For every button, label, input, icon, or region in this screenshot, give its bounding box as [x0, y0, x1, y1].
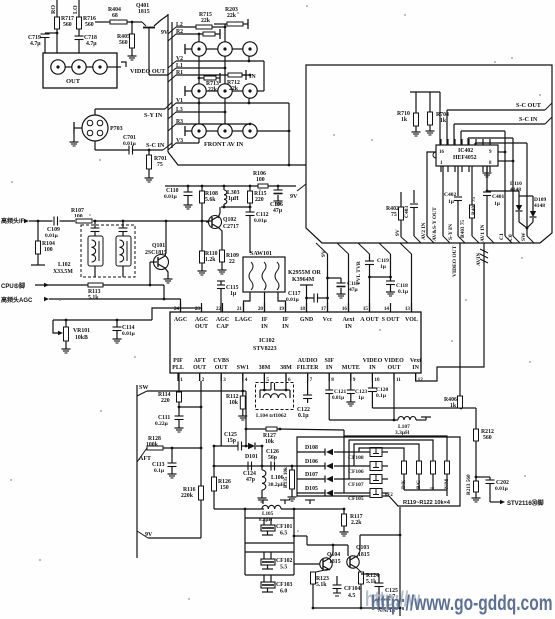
- resistor R715: [196, 12, 225, 42]
- resistor R212: [474, 429, 494, 478]
- svg-text:1815: 1815: [138, 9, 150, 15]
- svg-text:6.0: 6.0: [280, 589, 287, 595]
- svg-text:L104 trf1062: L104 trf1062: [256, 413, 287, 419]
- SAW filter SAW101: [243, 251, 285, 292]
- svg-text:9: 9: [353, 377, 356, 383]
- capacitor C111: [155, 415, 184, 427]
- capacitor C121: [325, 373, 346, 420]
- ground VR101: [62, 346, 71, 353]
- resistor R717: [55, 16, 74, 53]
- svg-text:1μ: 1μ: [494, 201, 501, 207]
- svg-text:IN: IN: [282, 324, 289, 330]
- svg-text:0.01μ: 0.01μ: [123, 141, 137, 147]
- svg-text:47μ: 47μ: [273, 208, 283, 214]
- svg-text:75: 75: [157, 162, 163, 168]
- capacitor C117: [286, 291, 329, 303]
- svg-text:C401: C401: [492, 194, 504, 200]
- svg-text:IN: IN: [369, 365, 376, 371]
- resistor R701: [147, 150, 167, 175]
- wire discriminator line: [214, 465, 297, 468]
- svg-text:CF101: CF101: [276, 524, 293, 530]
- svg-text:RO: RO: [51, 5, 57, 14]
- svg-text:5.1k: 5.1k: [88, 295, 99, 301]
- svg-text:Q101: Q101: [152, 243, 165, 249]
- svg-text:18: 18: [300, 306, 306, 312]
- ground Q101: [164, 276, 173, 283]
- watermark go-gddq: [371, 591, 553, 615]
- resistor R2 series: [198, 29, 220, 42]
- node R2: [168, 29, 203, 41]
- op-amp U IC402 HEF4052: [433, 145, 498, 166]
- wire VR rail: [53, 308, 202, 320]
- AV row3 jack right: [232, 124, 290, 138]
- svg-text:Aext: Aext: [343, 317, 355, 323]
- capacitor C114: [113, 319, 136, 337]
- svg-text:22: 22: [216, 306, 222, 312]
- ceramic filter CF106: [348, 462, 388, 476]
- svg-text:9: 9: [489, 150, 492, 155]
- svg-text:R213 560: R213 560: [466, 474, 472, 495]
- wire R710 R704 feed: [410, 92, 440, 145]
- capacitor C403: [404, 190, 421, 243]
- svg-text:D108: D108: [305, 445, 318, 451]
- wire bus vertical bundle: [168, 14, 172, 152]
- wire Q101 emitter: [165, 268, 168, 276]
- svg-text:C2717: C2717: [223, 224, 239, 230]
- ground R710: [412, 129, 421, 136]
- svg-text:IC102: IC102: [259, 338, 275, 344]
- capacitor C110: [164, 185, 193, 202]
- wire pin3 column: [220, 373, 222, 446]
- svg-text:23: 23: [195, 306, 201, 312]
- svg-text:560: 560: [85, 22, 94, 28]
- wire CPU to AGC join: [163, 285, 165, 299]
- capacitor C402: [444, 166, 465, 243]
- wire detector output column: [399, 507, 402, 609]
- ground R704: [426, 128, 435, 135]
- svg-text:IN: IN: [412, 365, 419, 371]
- resistor R123: [311, 569, 330, 609]
- resistor R213: [466, 474, 479, 495]
- audio OUT jack panel: [43, 53, 126, 88]
- svg-text:S-C IN: S-C IN: [146, 142, 165, 149]
- svg-text:OUT: OUT: [387, 365, 400, 371]
- filter cell 1: [88, 220, 103, 277]
- ground C113: [168, 471, 177, 478]
- svg-text:22: 22: [229, 259, 235, 265]
- node V1: [168, 98, 289, 165]
- ceramic filter CF103: [261, 575, 293, 595]
- wire Q cluster feed: [294, 536, 348, 546]
- capacitor C118: [370, 243, 409, 295]
- svg-text:8: 8: [489, 161, 492, 166]
- svg-text:4.5: 4.5: [348, 593, 355, 599]
- filter cell 2: [116, 220, 131, 277]
- wire SAW pin20: [264, 292, 266, 312]
- capacitor C115: [217, 281, 239, 312]
- svg-text:1μ: 1μ: [230, 291, 237, 297]
- svg-text:CF105: CF105: [348, 496, 364, 502]
- svg-text:SAW101: SAW101: [250, 251, 272, 257]
- wire SW column: [519, 222, 534, 243]
- svg-text:0.1μ: 0.1μ: [154, 468, 165, 474]
- capacitor C401: [480, 166, 504, 243]
- svg-text:0.01μ: 0.01μ: [164, 194, 178, 200]
- node L3: [168, 107, 226, 119]
- wire to STV2116: [490, 499, 544, 507]
- svg-text:38M: 38M: [259, 365, 271, 371]
- capacitor C125 audio: [361, 574, 398, 614]
- svg-text:7: 7: [310, 377, 313, 383]
- svg-text:AV&S-Y OUT: AV&S-Y OUT: [432, 207, 438, 241]
- wire CF box frame: [244, 508, 296, 575]
- svg-text:L106: L106: [271, 475, 284, 481]
- svg-text:A OUT: A OUT: [360, 317, 379, 323]
- wire bottom rail: [214, 508, 345, 511]
- capacitor C113: [152, 448, 177, 474]
- svg-text:0.01μ: 0.01μ: [286, 297, 300, 303]
- wire pin6 into L104: [285, 373, 288, 391]
- svg-text:X33.5M: X33.5M: [53, 269, 73, 275]
- svg-text:22k: 22k: [227, 13, 237, 19]
- wire 9V rail: [165, 186, 298, 200]
- svg-text:S-Y IN: S-Y IN: [448, 224, 454, 240]
- svg-text:AGC: AGC: [216, 317, 229, 323]
- IC102 bottom pin labels: [172, 358, 421, 371]
- svg-text:16: 16: [342, 306, 348, 312]
- wire P703 left lead: [74, 122, 82, 139]
- capacitor C120: [368, 373, 389, 408]
- svg-text:D106: D106: [305, 459, 318, 465]
- wire Q401 emitter to video out: [148, 28, 150, 75]
- svg-text:220k: 220k: [181, 493, 194, 499]
- AV row2 jack left: [185, 84, 206, 98]
- svg-text:Q103: Q103: [356, 545, 369, 551]
- wire S-C IN right: [454, 116, 552, 145]
- svg-text:22k: 22k: [201, 18, 211, 24]
- svg-text:R119~R122 10k×4: R119~R122 10k×4: [403, 500, 451, 506]
- wire video R406 line: [372, 407, 476, 429]
- svg-text:1k: 1k: [450, 403, 457, 409]
- filter L102 dashed box: [53, 225, 135, 277]
- svg-text:560: 560: [119, 40, 128, 46]
- wire AVIN column: [476, 249, 488, 266]
- resistor R116: [181, 486, 204, 500]
- resistor R115: [248, 185, 267, 209]
- wire left bus: [136, 385, 138, 558]
- svg-text:1: 1: [440, 161, 443, 166]
- svg-text:0.01μ: 0.01μ: [254, 218, 268, 224]
- svg-text:15: 15: [363, 306, 369, 312]
- svg-text:C0: C0: [508, 234, 514, 241]
- svg-text:1.2k: 1.2k: [205, 257, 216, 263]
- svg-text:VOL: VOL: [405, 317, 418, 323]
- diode D106: [297, 459, 370, 470]
- watermark ghost: [365, 587, 421, 611]
- svg-text:1k: 1k: [440, 118, 447, 124]
- resistor R126: [212, 477, 231, 491]
- node R3: [168, 119, 251, 131]
- svg-text:SW: SW: [521, 232, 527, 241]
- svg-text:21: 21: [237, 306, 243, 312]
- ground R701: [145, 175, 154, 182]
- svg-text:10k: 10k: [265, 439, 275, 445]
- svg-text:CF108: CF108: [348, 455, 364, 461]
- svg-text:B/G: B/G: [416, 480, 422, 489]
- svg-text:3: 3: [223, 377, 226, 383]
- svg-text:1k: 1k: [401, 117, 408, 123]
- AV row3 jack mid: [206, 124, 232, 138]
- transistor Q103: [347, 545, 370, 568]
- ground C118: [386, 289, 395, 296]
- svg-text:AUDIO: AUDIO: [298, 358, 318, 364]
- resistor R104: [31, 220, 55, 265]
- ceramic filter CF102: [261, 552, 293, 571]
- svg-text:VIDEO: VIDEO: [384, 358, 404, 364]
- svg-text:0F2: 0F2: [385, 493, 393, 498]
- ground R109: [218, 267, 227, 274]
- svg-text:0.01μ: 0.01μ: [495, 486, 509, 492]
- svg-text:IN: IN: [326, 365, 333, 371]
- svg-text:2.2k: 2.2k: [351, 520, 362, 526]
- svg-text:47p: 47p: [246, 477, 255, 483]
- svg-text:LAGC: LAGC: [235, 317, 252, 323]
- svg-text:CF104: CF104: [344, 586, 361, 592]
- svg-text:100: 100: [256, 177, 265, 183]
- svg-text:Vext: Vext: [410, 358, 421, 364]
- svg-text:SIF: SIF: [325, 358, 335, 364]
- svg-text:1μ: 1μ: [448, 199, 455, 205]
- node L1: [168, 63, 226, 75]
- svg-text:0.01μ: 0.01μ: [332, 395, 344, 401]
- resistor R712: [225, 24, 256, 92]
- resistor R716: [77, 16, 96, 53]
- svg-text:3.3μH: 3.3μH: [395, 430, 410, 436]
- wire audio line: [329, 419, 398, 421]
- resistor R406: [444, 396, 463, 409]
- label AV&S-Y OUT: [432, 207, 438, 241]
- svg-text:HEF4052: HEF4052: [453, 155, 477, 161]
- svg-text:11: 11: [396, 377, 401, 383]
- wire RO line: [51, 0, 57, 17]
- svg-text:N/M: N/M: [444, 479, 450, 489]
- svg-text:0.01μ: 0.01μ: [122, 331, 136, 337]
- svg-text:4.7μ: 4.7μ: [30, 41, 41, 47]
- svg-text:5.6k: 5.6k: [205, 197, 216, 203]
- svg-text:OUT: OUT: [215, 365, 228, 371]
- svg-text:PIF: PIF: [173, 358, 183, 364]
- transistor Q401: [136, 3, 169, 36]
- svg-text:2: 2: [202, 377, 205, 383]
- svg-text:IN: IN: [261, 324, 268, 330]
- resistor R114: [158, 373, 202, 416]
- svg-text:IN: IN: [249, 74, 256, 80]
- capacitor C701: [123, 135, 172, 155]
- svg-text:LO: LO: [73, 5, 79, 14]
- wire fan to pin13: [400, 243, 412, 312]
- svg-text:150: 150: [220, 485, 229, 491]
- wire IC402 pin stubs: [441, 139, 490, 172]
- capacitor C106: [270, 185, 283, 214]
- ceramic filter CF105: [348, 489, 388, 503]
- svg-text:14: 14: [384, 306, 390, 312]
- IC102 top pin stubs and numbers: [174, 303, 412, 312]
- wire AGC line: [1, 296, 181, 312]
- svg-text:6.5: 6.5: [280, 531, 287, 537]
- connector P703: [82, 115, 123, 141]
- ground L106: [258, 495, 267, 502]
- node SW: [137, 385, 243, 396]
- svg-text:STV2116㉚脚: STV2116㉚脚: [507, 499, 544, 507]
- svg-text:FILTER: FILTER: [297, 365, 319, 371]
- svg-text:R403 75: R403 75: [460, 220, 466, 238]
- variable resistor VR101: [53, 319, 90, 346]
- ground R117: [340, 529, 349, 536]
- svg-text:PLL: PLL: [172, 365, 184, 371]
- wire S-Y IN: [95, 102, 172, 119]
- svg-text:http://www.go-gddq.com: http://www.go-gddq.com: [371, 591, 553, 615]
- transistor Q104: [294, 552, 341, 570]
- capacitor C126: [266, 449, 279, 471]
- label 0F2: [385, 493, 393, 498]
- svg-text:IF: IF: [283, 317, 289, 323]
- resistor R710: [397, 92, 419, 129]
- svg-text:4.7μ: 4.7μ: [86, 41, 97, 47]
- svg-text:5.1k: 5.1k: [316, 582, 327, 588]
- resistor R713: [198, 73, 220, 93]
- wire bottom rail 2: [313, 608, 400, 616]
- svg-text:CF106: CF106: [348, 469, 364, 475]
- svg-text:VIDEO OUT: VIDEO OUT: [130, 68, 166, 75]
- wire TVR fan to pin15: [358, 243, 370, 261]
- wire Q401 collector: [154, 15, 168, 26]
- svg-text:CAP: CAP: [216, 324, 229, 330]
- wire C1 column: [498, 131, 512, 243]
- wire Q101 base: [150, 262, 157, 285]
- resistor R124: [357, 568, 379, 609]
- wire C0 column: [498, 138, 520, 243]
- svg-text:17: 17: [321, 306, 327, 312]
- svg-text:68: 68: [112, 13, 118, 19]
- resistor R404: [95, 7, 142, 24]
- ground R112: [238, 413, 247, 420]
- resistor R127: [246, 427, 344, 445]
- AV row1 jack left: [185, 42, 206, 56]
- node V3: [168, 138, 199, 150]
- svg-text:5.5: 5.5: [280, 565, 287, 571]
- ground L107: [421, 417, 431, 420]
- svg-text:5.1k: 5.1k: [366, 579, 377, 585]
- svg-text:20: 20: [258, 306, 264, 312]
- IC102 top pin labels: [174, 317, 418, 330]
- svg-text:56p: 56p: [268, 455, 277, 461]
- svg-text:AV1 IN: AV1 IN: [480, 224, 486, 242]
- node V2: [168, 56, 264, 91]
- svg-text:0.1μ: 0.1μ: [376, 393, 387, 399]
- resistor R135: [283, 466, 295, 494]
- svg-text:0.01μ: 0.01μ: [45, 233, 59, 239]
- wire IC402 top routing: [461, 131, 513, 145]
- svg-text:10k: 10k: [229, 400, 239, 406]
- svg-text:CVBS: CVBS: [213, 358, 230, 364]
- svg-text:S-C IN: S-C IN: [519, 116, 538, 123]
- svg-text:1: 1: [180, 377, 183, 383]
- wire collector line: [221, 206, 250, 208]
- ground R405: [128, 53, 137, 60]
- diode D107: [297, 472, 370, 483]
- wire row2 right lead: [248, 91, 264, 104]
- wire pin2 column: [200, 373, 201, 538]
- wire row1-row2 columns: [199, 56, 225, 84]
- wire 9V fan to pin17: [316, 243, 328, 312]
- transistor Q102: [206, 207, 239, 250]
- svg-text:AGC: AGC: [174, 317, 187, 323]
- wire 9V notch: [297, 184, 306, 191]
- svg-text:75: 75: [391, 212, 397, 218]
- label R119-R122: [403, 500, 451, 506]
- AV row1 jack mid: [206, 42, 232, 56]
- diode D101: [245, 443, 263, 468]
- resistor R107: [71, 208, 93, 225]
- wire pin5 into L104: [263, 373, 266, 391]
- svg-text:C1: C1: [499, 233, 505, 240]
- wire LO line: [73, 0, 79, 17]
- ground R135: [288, 494, 297, 501]
- node AFT: [137, 448, 151, 462]
- svg-text:MUTE: MUTE: [342, 365, 360, 371]
- capacitor C123: [347, 373, 368, 401]
- node L2: [168, 22, 196, 34]
- wire CPU line: [1, 282, 88, 290]
- svg-text:S OUT: S OUT: [382, 317, 400, 323]
- svg-text:SW1: SW1: [237, 365, 249, 371]
- resistor R403: [460, 166, 479, 243]
- IC IC102 STV8223 body: [170, 312, 421, 373]
- svg-text:P703: P703: [110, 126, 123, 132]
- wire Q104 collector: [330, 545, 333, 558]
- IC102 bottom pin stubs and numbers: [178, 373, 423, 383]
- svg-text:19: 19: [279, 306, 285, 312]
- svg-text:1815: 1815: [358, 552, 370, 558]
- capacitor C109: [45, 215, 60, 239]
- ground C114: [113, 336, 122, 343]
- node R1: [168, 70, 251, 82]
- svg-text:AV2 IN: AV2 IN: [421, 222, 427, 240]
- resistor R405: [117, 21, 135, 53]
- svg-text:8: 8: [331, 377, 334, 383]
- diode D105: [297, 486, 370, 497]
- label FRONT AV IN: [204, 141, 244, 148]
- AV row3 jack left: [185, 124, 206, 138]
- svg-text:560: 560: [483, 435, 492, 441]
- wire VIDEO OUT column: [452, 243, 460, 398]
- ground marks above rail: [258, 500, 315, 504]
- svg-text:9V: 9V: [395, 229, 401, 236]
- svg-text:VIDEO OUT: VIDEO OUT: [452, 245, 458, 277]
- svg-text:Q102: Q102: [223, 217, 236, 223]
- svg-text:D101: D101: [245, 454, 258, 460]
- AV row1 jack right: [232, 42, 257, 56]
- svg-text:12: 12: [418, 377, 424, 383]
- capacitor C202: [476, 477, 509, 502]
- svg-text:OUT: OUT: [66, 78, 81, 85]
- svg-text:100: 100: [44, 247, 53, 253]
- ground C123: [346, 399, 355, 406]
- diode D109: [519, 196, 546, 222]
- wire row2-row3 columns: [199, 98, 225, 124]
- ground C106: [274, 198, 283, 205]
- ground P703: [70, 139, 79, 146]
